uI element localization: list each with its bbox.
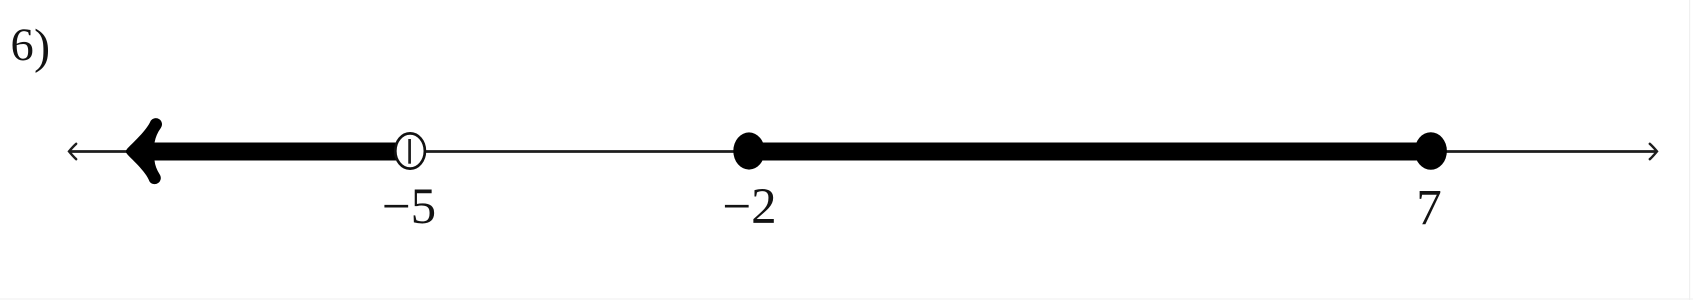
svg-text:6: 6 (11, 20, 34, 71)
svg-text:): ) (34, 21, 50, 74)
svg-text:−2: −2 (722, 179, 776, 235)
svg-text:−5: −5 (382, 179, 436, 235)
svg-text:7: 7 (1416, 181, 1442, 237)
